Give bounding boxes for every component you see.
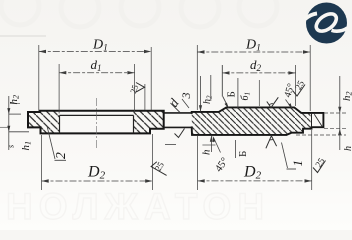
- pin stub diagonal: [314, 114, 322, 126]
- h2 dim left margin: [9, 113, 21, 115]
- D1 dim left view: [39, 45, 151, 111]
- roughness mark 25 bottom right: [313, 161, 326, 173]
- faint watermark circles top row: [1, 0, 277, 27]
- pin top line: [164, 112, 192, 114]
- right margin h2 dim: [324, 112, 346, 114]
- hatch part 1: [192, 107, 311, 134]
- B dim right view top: [221, 65, 223, 97]
- h dim right view bottom left: [210, 136, 212, 153]
- d1 dim left view: [59, 64, 135, 114]
- logo circle: [306, 3, 347, 44]
- roughness mark on bottom surface: [266, 136, 277, 149]
- D2 dim right view: [198, 130, 312, 190]
- d2 dim right view: [222, 65, 295, 106]
- svg-text:2: 2: [53, 152, 68, 159]
- logo swirl: [305, 10, 348, 34]
- h2 second vertical: [210, 75, 212, 101]
- svg-text:Б: Б: [226, 91, 238, 97]
- faint scan streak: [0, 35, 46, 37]
- B dim bottom: [235, 140, 237, 158]
- roughness mark 25 upper left view: [136, 83, 145, 93]
- pin bottom line: [164, 126, 192, 128]
- hatch right block of part 2: [134, 111, 164, 134]
- roughness ext line: [144, 84, 146, 110]
- position label 1: [282, 143, 288, 169]
- part 2 inner edge right: [133, 115, 135, 133]
- part 2 outline: [28, 111, 164, 134]
- svg-text:НОЛЖАТОН: НОЛЖАТОН: [6, 186, 270, 227]
- h2 dim right view top: [200, 76, 202, 112]
- roughness mark 25 top right: [293, 85, 305, 97]
- part 2 inner edge left: [59, 115, 61, 133]
- part 1 outline: [192, 107, 324, 134]
- svg-text:1: 1: [290, 160, 305, 167]
- svg-text:s: s: [7, 145, 16, 148]
- part 2 vertical centerline: [95, 98, 97, 150]
- part 2 recess line: [60, 114, 134, 116]
- svg-text:h: h: [343, 146, 352, 151]
- position label 2: [47, 126, 55, 159]
- svg-text:3: 3: [179, 93, 193, 100]
- hatch left block of part 2: [28, 111, 60, 134]
- svg-text:Б: Б: [237, 151, 249, 157]
- D2 dim left view: [42, 134, 153, 190]
- part 1 / pin boundary right: [311, 113, 313, 127]
- svg-text:h: h: [201, 149, 213, 155]
- D1 dim right view: [197, 45, 310, 111]
- check mark under neck: [175, 129, 185, 138]
- b1 dim right view top: [258, 80, 260, 106]
- roughness mark on top surface: [267, 97, 279, 107]
- roughness mark 25 lower left view: [151, 162, 167, 176]
